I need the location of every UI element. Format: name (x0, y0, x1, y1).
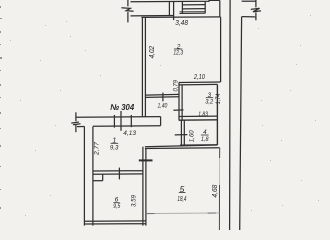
room 3 left wall inner line (181, 85, 183, 121)
door tick on corridor wall (162, 93, 164, 102)
svg-text:4,68: 4,68 (210, 184, 219, 198)
left wall outer line (83, 126, 85, 225)
svg-text:4,13: 4,13 (123, 130, 136, 137)
room 1 underline (111, 142, 119, 144)
wall top edge (staircase south wall) (131, 0, 220, 1)
entrance door tick 2 (leader) (120, 111, 122, 131)
svg-text:9,3: 9,3 (110, 144, 119, 151)
room 4 bottom wall (180, 144, 218, 146)
room 5 top wall lower line (145, 147, 220, 150)
svg-text:0,79: 0,79 (172, 80, 179, 92)
room 2 top wall (141, 16, 220, 19)
svg-text:1,74: 1,74 (216, 93, 222, 104)
entrance wall top line (76, 116, 161, 119)
svg-text:1,40: 1,40 (158, 103, 168, 110)
room 5 right wall (219, 148, 221, 158)
right wall top connector lower (242, 16, 256, 18)
svg-text:18,4: 18,4 (177, 194, 186, 203)
svg-text:3,48: 3,48 (175, 20, 188, 27)
svg-text:12,3: 12,3 (173, 49, 183, 56)
room 3 underline (206, 97, 213, 99)
room 6 underline (113, 202, 119, 204)
door tick room 3 (173, 109, 183, 111)
stair tread 2 (182, 8, 205, 10)
room 4 left wall inner line (183, 120, 185, 146)
right wall top connector upper (242, 0, 256, 2)
room 6 bottom wall lower line (84, 223, 146, 225)
room 1 bottom wall lower line (93, 173, 143, 175)
corridor wall upper line (room 2 bottom) (145, 93, 178, 96)
room 5 underline (179, 191, 186, 193)
door dash room 5 (thick opening mark) (139, 159, 153, 161)
svg-text:3,2: 3,2 (205, 99, 214, 106)
partition vertical right (173, 2, 175, 21)
svg-text:4,02: 4,02 (149, 46, 156, 59)
room 2 underline (174, 48, 183, 50)
stairs left vertical (181, 2, 183, 14)
stair tread 4 (180, 12, 206, 14)
entrance door tick 1 (113, 115, 115, 128)
rooms 3-4 right wall (216, 84, 218, 145)
room 6 bottom wall upper line (84, 220, 146, 222)
room 4 left wall outer line (180, 120, 182, 146)
svg-text:1,60: 1,60 (189, 130, 196, 142)
entrance wall right end (160, 117, 162, 126)
corridor wall lower line (145, 96, 178, 99)
svg-text:№ 304: № 304 (110, 102, 134, 112)
svg-text:9,5: 9,5 (113, 203, 120, 210)
room 2 left wall outer line (141, 17, 143, 117)
svg-text:1,8: 1,8 (201, 136, 209, 143)
svg-text:2,77: 2,77 (94, 142, 101, 156)
svg-text:1,83: 1,83 (198, 112, 208, 118)
break symbol left of top wall (127, 0, 129, 6)
room 3 top wall line 2 (179, 83, 217, 86)
room 1 bottom wall upper line (93, 170, 143, 172)
break stub top right (255, 0, 257, 7)
room 3 left wall outer line (178, 83, 180, 121)
stair tread 1 (182, 4, 205, 6)
building right wall outer line (229, 0, 232, 230)
svg-text:3,59: 3,59 (131, 194, 138, 207)
svg-text:2,10: 2,10 (193, 74, 205, 81)
room 2 left wall inner line (144, 17, 146, 117)
stair tread 3 (180, 11, 206, 13)
partition vertical left (168, 2, 170, 16)
room 5 top wall upper line (145, 145, 218, 147)
scan speckles (10, 15, 319, 216)
notch horizontal at room 6 top-left (93, 180, 103, 182)
room 3 top wall line 1 (179, 81, 221, 84)
rooms 6-5 divider wall inner line (145, 149, 147, 226)
entrance door tick 3 (130, 115, 132, 127)
break stub at entrance wall left (75, 112, 77, 121)
rooms 3-4 divider wall line 1 (179, 115, 217, 117)
entrance wall bottom line right segment (93, 125, 161, 128)
left wall inner line (92, 126, 94, 225)
wall bottom edge left part (131, 15, 174, 17)
scan edge artifacts left (0, 6, 2, 209)
rooms 3-4 divider wall line 2 (179, 119, 217, 121)
wire vertical above room2 right wall (219, 0, 221, 17)
door tick room 6 (118, 168, 120, 180)
rooms 6-5 divider wall outer line (142, 147, 144, 226)
room 2 right wall (220, 17, 222, 82)
stairs right vertical (204, 1, 206, 13)
door tick room 4 (175, 134, 188, 136)
room 5 bottom wall faint (146, 212, 220, 215)
notch vertical at room 6 top-left (102, 174, 104, 180)
entrance wall bottom line left segment (77, 126, 84, 128)
building right wall inner line (240, 17, 242, 230)
room 4 underline (201, 134, 209, 136)
